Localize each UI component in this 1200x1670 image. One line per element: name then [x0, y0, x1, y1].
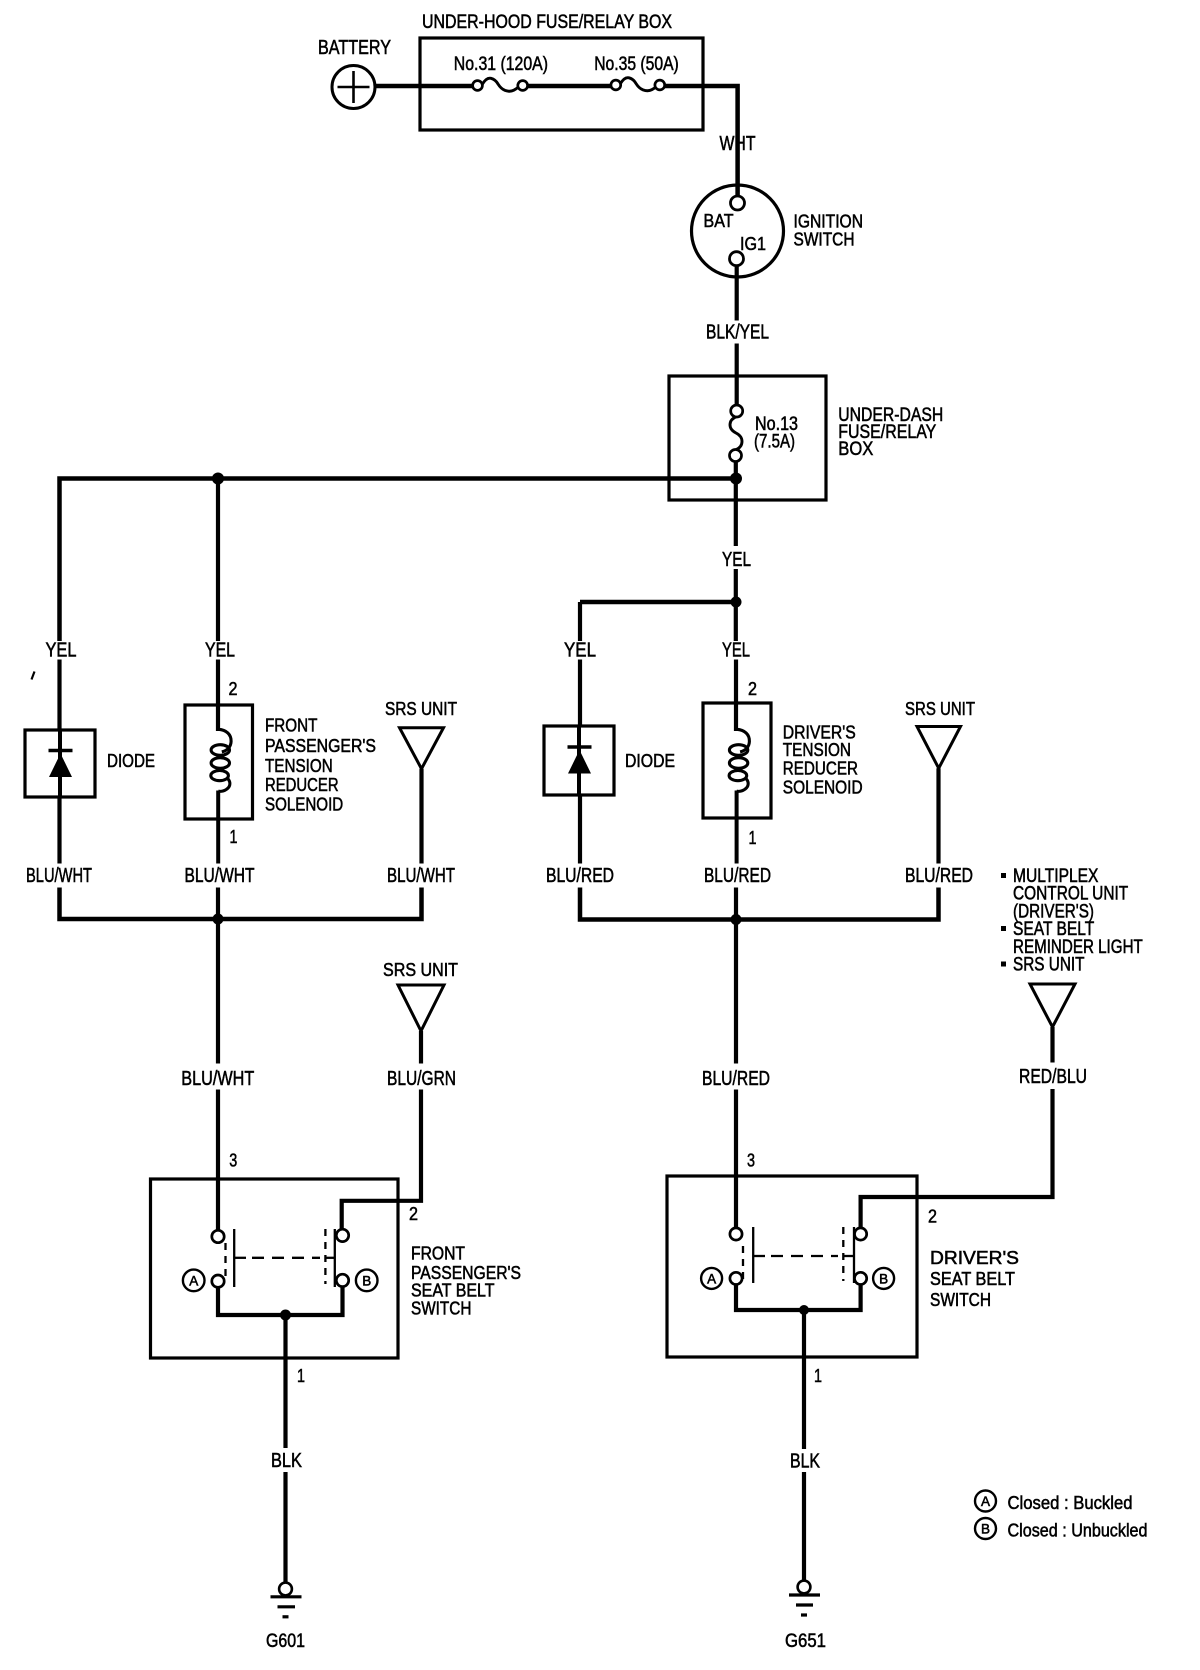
svg-text:Closed : Buckled: Closed : Buckled	[1008, 1492, 1133, 1513]
svg-text:BLU/RED: BLU/RED	[702, 1068, 770, 1090]
svg-text:SWITCH: SWITCH	[930, 1289, 991, 1310]
svg-text:2: 2	[928, 1206, 937, 1227]
svg-text:1: 1	[230, 826, 238, 847]
svg-text:BOX: BOX	[838, 438, 873, 460]
svg-text:SEAT BELT: SEAT BELT	[930, 1268, 1015, 1289]
svg-text:SWITCH: SWITCH	[794, 229, 855, 250]
svg-text:(7.5A): (7.5A)	[754, 432, 795, 453]
svg-text:No.35 (50A): No.35 (50A)	[594, 54, 679, 75]
svg-text:RED/BLU: RED/BLU	[1019, 1066, 1087, 1088]
svg-text:DIODE: DIODE	[107, 750, 155, 771]
svg-text:BLK: BLK	[790, 1451, 821, 1473]
svg-text:BLU/WHT: BLU/WHT	[26, 865, 92, 887]
svg-text:BLK/YEL: BLK/YEL	[706, 322, 769, 344]
svg-text:BLU/RED: BLU/RED	[546, 865, 614, 887]
svg-text:FRONT: FRONT	[411, 1242, 465, 1263]
svg-text:3: 3	[229, 1150, 237, 1171]
svg-text:SOLENOID: SOLENOID	[265, 794, 343, 815]
svg-text:BAT: BAT	[704, 210, 734, 231]
svg-text:YEL: YEL	[722, 640, 750, 662]
svg-text:REDUCER: REDUCER	[265, 774, 339, 795]
svg-text:SRS UNIT: SRS UNIT	[385, 698, 457, 719]
svg-text:PASSENGER'S: PASSENGER'S	[265, 735, 376, 756]
svg-text:UNDER-HOOD FUSE/RELAY BOX: UNDER-HOOD FUSE/RELAY BOX	[422, 11, 672, 33]
svg-text:G651: G651	[785, 1631, 826, 1652]
svg-text:BLU/WHT: BLU/WHT	[181, 1068, 254, 1090]
svg-text:1: 1	[814, 1365, 822, 1386]
svg-text:G601: G601	[266, 1631, 305, 1652]
svg-text:A: A	[707, 1271, 716, 1286]
svg-text:B: B	[879, 1271, 888, 1286]
svg-text:2: 2	[409, 1203, 418, 1224]
svg-text:BLU/WHT: BLU/WHT	[185, 865, 255, 887]
svg-text:A: A	[981, 1494, 990, 1509]
svg-text:BLU/WHT: BLU/WHT	[387, 865, 455, 887]
svg-text:B: B	[362, 1273, 371, 1288]
svg-text:3: 3	[747, 1150, 755, 1171]
svg-text:B: B	[981, 1522, 990, 1537]
svg-text:SRS UNIT: SRS UNIT	[905, 698, 975, 719]
svg-text:SOLENOID: SOLENOID	[783, 776, 863, 797]
svg-text:BLU/RED: BLU/RED	[704, 865, 771, 887]
svg-text:BLU/RED: BLU/RED	[905, 865, 973, 887]
svg-text:YEL: YEL	[722, 549, 751, 571]
svg-text:IG1: IG1	[740, 233, 766, 254]
svg-text:SWITCH: SWITCH	[411, 1298, 471, 1319]
svg-text:BLK: BLK	[271, 1450, 303, 1472]
svg-text:FRONT: FRONT	[265, 715, 317, 736]
svg-text:A: A	[189, 1273, 198, 1288]
svg-text:DRIVER'S: DRIVER'S	[930, 1247, 1019, 1268]
svg-text:2: 2	[229, 678, 238, 699]
svg-text:YEL: YEL	[564, 640, 596, 662]
svg-text:YEL: YEL	[205, 640, 235, 662]
svg-text:No.31 (120A): No.31 (120A)	[454, 54, 548, 75]
svg-text:DIODE: DIODE	[625, 750, 675, 771]
svg-text:1: 1	[749, 827, 757, 848]
svg-text:2: 2	[748, 678, 757, 699]
svg-text:SRS UNIT: SRS UNIT	[383, 959, 458, 980]
svg-text:WHT: WHT	[720, 133, 756, 155]
svg-text:BATTERY: BATTERY	[318, 37, 391, 59]
svg-text:YEL: YEL	[46, 640, 77, 662]
svg-text:Closed : Unbuckled: Closed : Unbuckled	[1008, 1520, 1148, 1541]
svg-text:TENSION: TENSION	[265, 755, 333, 776]
svg-text:SRS UNIT: SRS UNIT	[1013, 955, 1085, 976]
svg-text:1: 1	[297, 1365, 305, 1386]
svg-text:BLU/GRN: BLU/GRN	[387, 1068, 456, 1090]
